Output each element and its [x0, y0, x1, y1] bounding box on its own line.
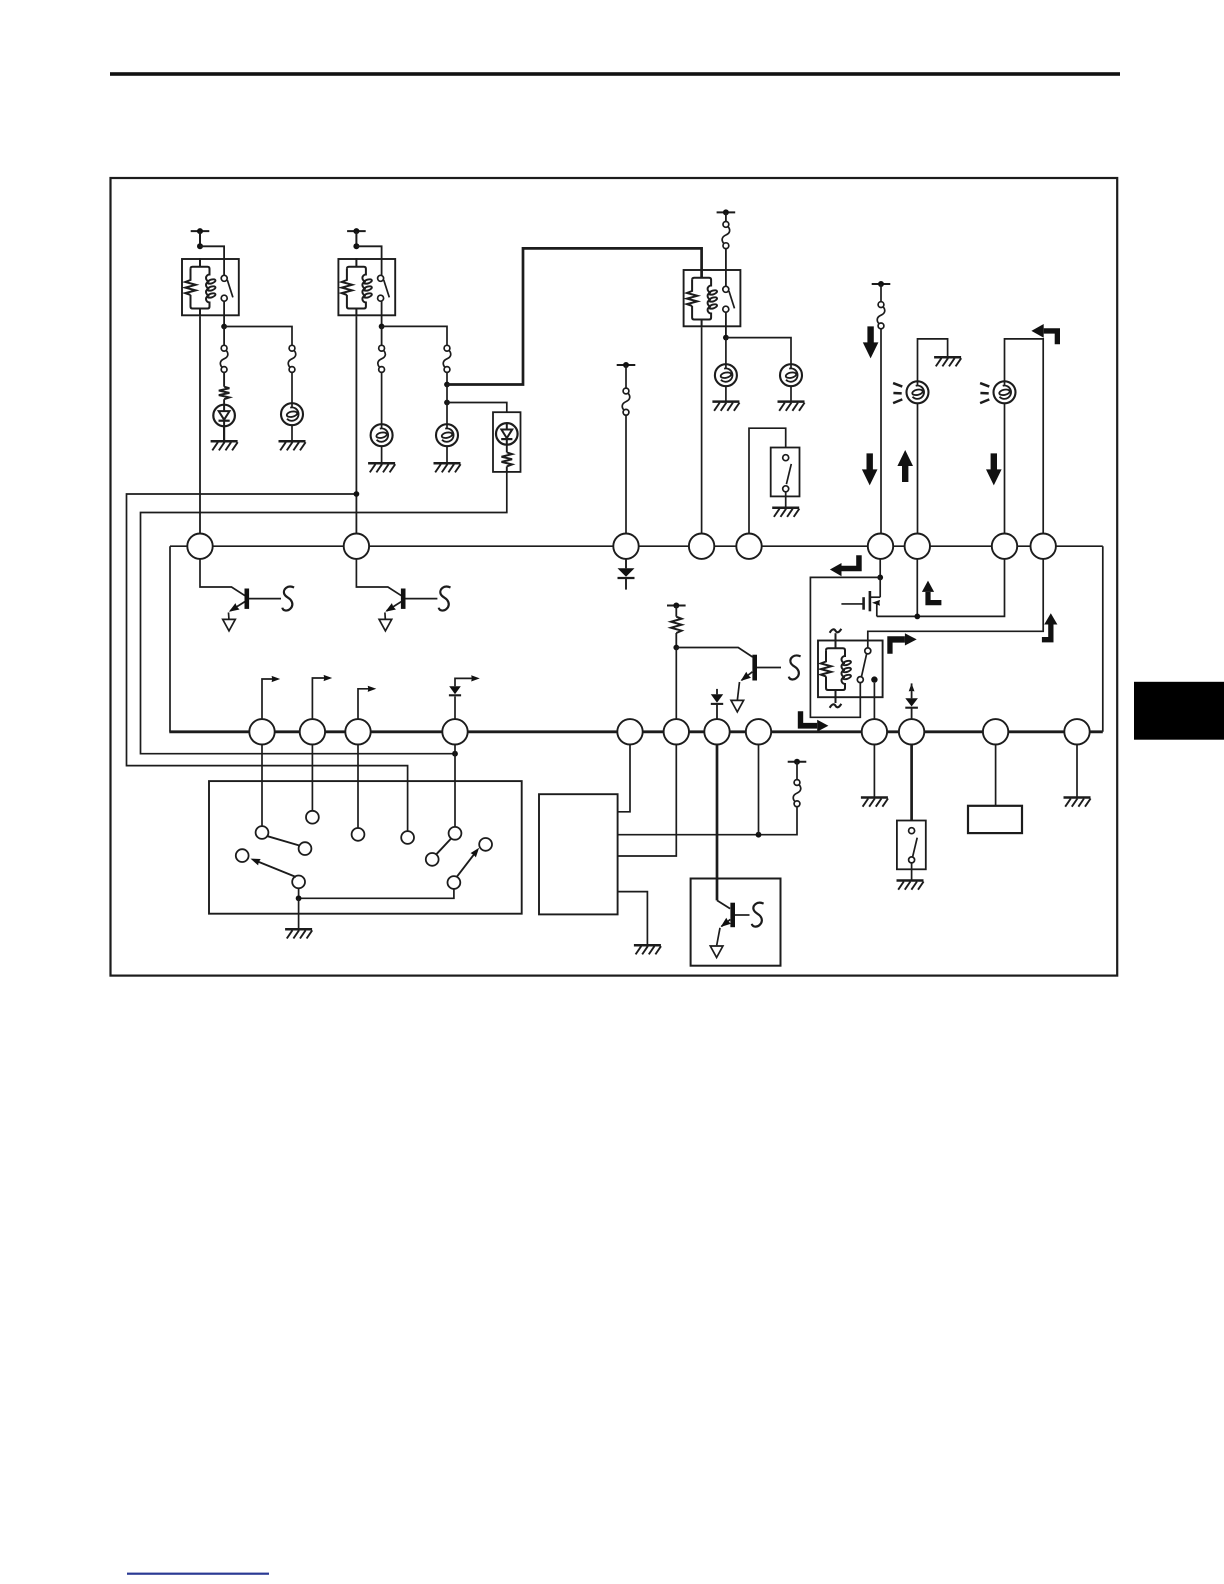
bold current arrow down A2 — [862, 453, 878, 485]
bold bent arrow pointing left top-right — [1044, 328, 1060, 344]
power stub node above fuse F7 — [872, 283, 891, 285]
wire P6 down to junction — [879, 559, 881, 578]
S1 contact c9 — [426, 853, 439, 866]
bold bent right arrow onto bus — [798, 711, 817, 728]
wire P18 to ground — [873, 745, 875, 798]
wire MOSFET source to pin P8 — [877, 559, 1005, 617]
wire U1 to fuse F8 line — [618, 807, 797, 834]
resistor R3 — [671, 617, 682, 633]
wire K4 coil out to break symbol — [835, 690, 837, 703]
wire F5 to relay K3 switch — [725, 249, 727, 287]
wire P10 to contact — [261, 745, 263, 827]
wire F7 down to pin row — [880, 329, 882, 534]
power stub node for relay K1 — [191, 230, 210, 232]
transistor unit box — [691, 879, 781, 966]
connector pin P13 — [442, 719, 467, 744]
LED indicator D2 — [496, 423, 518, 445]
ground below U1 — [634, 944, 661, 947]
connector pin P6 — [868, 534, 893, 559]
connector pin P4 — [689, 534, 714, 559]
connector pin P7 — [905, 534, 930, 559]
ground below S1 — [285, 928, 312, 931]
fuse F3 — [378, 351, 386, 368]
fuse F6 — [622, 393, 630, 410]
junction node on P13 wire — [452, 751, 458, 757]
connector pin P1 — [187, 534, 212, 559]
power stub node above fuse F5 — [717, 211, 736, 213]
bold current arrow down A4 — [986, 453, 1002, 485]
wire P14 to U1 — [618, 745, 630, 812]
ground for headlight L7 — [934, 356, 961, 359]
wire K1 junction to switch contact — [200, 246, 224, 275]
S1 contact c10 — [479, 838, 492, 851]
S2 bottom contact — [909, 857, 915, 863]
ground below L2 — [368, 462, 395, 465]
diagram outer border box — [111, 178, 1118, 976]
wire S1 common to ground — [298, 898, 300, 929]
position bulb L4 — [715, 364, 737, 386]
wire P11 to contact — [311, 745, 313, 811]
power stub node above fuse F6 — [617, 364, 636, 366]
signal arrow above P12 — [358, 689, 370, 720]
signal arrow above P10 — [262, 679, 274, 719]
wire K3 switch output to junction — [725, 312, 727, 337]
wire P3 to diode D3 — [625, 559, 627, 568]
wire base junction down to lower pin — [675, 648, 677, 720]
wire L7 down to pin row — [917, 403, 919, 534]
connector pin P3 — [613, 534, 638, 559]
bold wire P19 down to switch S2 — [910, 745, 913, 821]
connector pin P19 — [899, 719, 924, 744]
wire S2 to ground — [911, 863, 913, 881]
switch S2 box — [897, 821, 926, 870]
wire K3 coil output down to pin row — [701, 327, 703, 534]
junction node K1 branch — [197, 243, 203, 249]
bold current arrow down A1 — [863, 326, 879, 358]
wire K1 stub to junction — [199, 231, 201, 246]
wire branch to fuse F2 — [224, 327, 292, 346]
switch S3 box — [771, 448, 800, 497]
connector pin P18 — [862, 719, 887, 744]
bold bent up arrow right of K4 — [1042, 625, 1054, 643]
ground below L5 — [778, 400, 805, 403]
bold feed wire to relay K3 coil — [447, 248, 702, 384]
ground below L1 — [279, 440, 306, 443]
transistor Q4 (PNP) — [717, 900, 730, 908]
ground below D1 — [211, 440, 238, 443]
S1 contact c7 — [236, 849, 249, 862]
wire right bus link down — [1102, 546, 1104, 732]
ground below P18 — [861, 796, 888, 799]
relay K1 box with coil and switch — [182, 259, 239, 315]
connector pin P12 — [345, 719, 370, 744]
wire L4 to ground — [725, 386, 727, 401]
transistor Q1 (PNP driver) — [200, 559, 294, 631]
wire branch to LED unit box — [447, 403, 507, 413]
relay K2 box with coil and switch — [338, 259, 395, 315]
wire F3 to bulb L2 — [381, 372, 383, 424]
S3 blade — [786, 464, 791, 484]
fuse F2 — [288, 351, 296, 368]
wire D1 to ground — [223, 426, 225, 441]
wire K2 switch output to junction — [381, 301, 383, 326]
connector pin P15 — [664, 719, 689, 744]
wire P12 to contact — [357, 745, 359, 829]
fuse F7 — [877, 307, 885, 324]
connector pin P21 — [1064, 719, 1089, 744]
wire stub to fuse F6 — [625, 365, 627, 388]
S2 blade — [913, 838, 918, 857]
junction node below K2 switch — [379, 324, 385, 330]
wire stub to resistor R3 — [675, 606, 677, 617]
relay K3 box with coil and switch — [684, 270, 741, 326]
fuse F4 — [443, 351, 451, 368]
resistor R1 — [219, 387, 230, 400]
S1 bridge c9-c5 — [436, 839, 451, 855]
junction node feed to relay K3 — [444, 382, 450, 388]
connector pin P17 — [746, 719, 771, 744]
bold bent arrow pointing left at MOSFET — [842, 555, 862, 571]
connector pin P8 — [992, 534, 1017, 559]
wire F4 to junction — [446, 372, 448, 384]
wire K4 pole down to lower pin — [873, 683, 875, 720]
K4 pole node — [871, 676, 877, 682]
S1 contact c4 — [401, 831, 414, 844]
wire F2 to bulb L1 — [291, 372, 293, 403]
break symbol above K4 coil — [830, 629, 842, 633]
wire to bulb L4 — [725, 338, 727, 365]
wire to fuse F3 — [381, 326, 383, 345]
S1 contact c11 — [448, 876, 461, 889]
S3 top contact — [783, 455, 789, 461]
resistor R2 — [502, 452, 513, 466]
junction node MOSFET drain — [877, 575, 883, 581]
S1 common wire — [299, 888, 454, 898]
handlebar switch box S1 — [209, 781, 522, 914]
diode D6 and arrow above P19 — [909, 683, 915, 691]
light rays of L7 — [893, 383, 902, 387]
fuse F1 — [220, 351, 228, 368]
ground below L4 — [712, 400, 739, 403]
connector pin P16 — [704, 719, 729, 744]
K4 coil and resistor — [826, 648, 845, 690]
wire headlight L8 top link — [1005, 339, 1044, 534]
tail bulb L3 — [436, 424, 458, 446]
wire L5 to ground — [790, 386, 792, 401]
junction node below K3 switch — [723, 335, 729, 341]
connector pin P10 — [249, 719, 274, 744]
lower connector bus line — [169, 730, 1103, 733]
wire P21 to ground — [1076, 745, 1078, 798]
connector pin P5 — [736, 534, 761, 559]
wire to fuse F1 — [223, 327, 225, 346]
tail bulb L2 — [371, 424, 393, 446]
S1 contact c2 — [306, 811, 319, 824]
headlight bulb L8 lit — [994, 381, 1016, 403]
wire L3 to ground — [446, 446, 448, 463]
wire MOSFET drain to flasher relay contact — [810, 577, 880, 717]
diode D3 — [618, 568, 635, 577]
flasher relay K4 box — [818, 641, 883, 698]
wire left bus link down — [169, 546, 171, 732]
wire K1 switch output to junction — [223, 301, 225, 326]
S1 contact c3 — [352, 828, 365, 841]
meter bulb L1 — [281, 403, 303, 425]
wire K2 junction to switch contact — [356, 246, 381, 275]
wire L8 down to pin row — [1004, 403, 1006, 534]
connector pin P9 — [1031, 534, 1056, 559]
wire stub below D3 — [625, 579, 627, 590]
resistor unit box U2 — [968, 806, 1022, 833]
ground below S2 — [897, 879, 924, 882]
connector pin P2 — [344, 534, 369, 559]
wire P15 to U1 — [618, 745, 677, 857]
wire stub to fuse F8 — [796, 762, 798, 783]
diode D5 and arrow above P13 — [454, 697, 456, 720]
wire K2 stub to junction — [355, 231, 357, 246]
S1 contact c8 — [292, 876, 305, 889]
transistor Q2 (PNP driver) — [356, 559, 450, 631]
wire stub to fuse F5 — [725, 212, 727, 224]
junction node Q3 base — [673, 645, 679, 651]
connector pin P11 — [300, 719, 325, 744]
junction node on P17 wire — [756, 832, 762, 838]
wire P13 junction to contact — [454, 745, 456, 828]
S2 top contact — [909, 828, 915, 834]
wire L1 to ground — [291, 425, 293, 441]
wire branch to bulb L5 — [726, 338, 791, 365]
break symbol below K4 coil — [830, 704, 842, 708]
position bulb L5 — [780, 364, 802, 386]
light rays of L8 — [980, 383, 989, 387]
S1 wiper arrow c8 to c7 — [257, 861, 297, 877]
fuse F8 — [793, 785, 801, 802]
wire F1 to resistor R1 — [223, 372, 225, 386]
wire F6 down to pin row — [625, 415, 627, 534]
wire R2 to box bottom — [506, 466, 508, 472]
wire K2 coil output down to pin row — [355, 316, 357, 534]
wire K4 switch top to pin P9 — [868, 559, 1043, 648]
power stub node above fuse F8 — [788, 761, 807, 763]
wire P7 down to source node — [916, 559, 918, 617]
upper connector bus line — [170, 545, 1103, 547]
wire L2 to ground — [381, 446, 383, 463]
wire from LED unit to switch box pin — [141, 472, 507, 754]
K4 switch blade — [862, 654, 867, 677]
control unit box U1 — [539, 794, 618, 914]
junction node S1 common — [296, 895, 302, 901]
MOSFET Q5 symbol — [879, 577, 881, 597]
junction node K2 branch — [353, 243, 359, 249]
small diode D4 above lower pin — [716, 689, 718, 694]
wire R1 to LED D1 — [223, 399, 225, 405]
S1 contact c6 — [299, 842, 312, 855]
bold bent right arrow above bus — [887, 636, 905, 654]
wire D2 to resistor R2 — [506, 445, 508, 453]
connector pin P14 — [617, 719, 642, 744]
wire headlight L7 to ground loop — [918, 339, 948, 381]
K4 switch bottom contact — [857, 677, 863, 683]
bold bent up arrow near P7 — [925, 592, 941, 605]
junction node on source wire — [914, 614, 920, 620]
bold current arrow up A3 — [897, 450, 913, 482]
S3 bottom contact — [783, 486, 789, 492]
wire P20 to resistor unit U2 — [995, 745, 997, 806]
wire S3 to ground — [785, 492, 787, 508]
wire P17 down to junction — [758, 745, 760, 835]
S1 contact c1 — [256, 826, 269, 839]
bottom-left blue rule — [127, 1573, 269, 1575]
K4 switch top contact — [865, 648, 871, 654]
wire R3 to base junction — [675, 633, 677, 648]
wire branch to fuse F4 — [382, 326, 447, 345]
headlight bulb L7 lit — [907, 381, 929, 403]
wire stub to fuse F7 — [880, 284, 882, 302]
wire U1 to ground — [618, 892, 648, 946]
connector pin P20 — [983, 719, 1008, 744]
junction node below K1 switch — [221, 324, 227, 330]
transistor Q3 (NPN) — [676, 648, 752, 658]
power stub node above resistor R3 — [667, 605, 686, 607]
S1 contact c5 — [449, 827, 462, 840]
power stub node for relay K2 — [347, 230, 366, 232]
fuse F5 — [722, 227, 730, 244]
signal arrow above P11 — [312, 678, 326, 719]
wire pin P5 up to switch S3 — [749, 428, 786, 534]
ground below S3 — [772, 506, 799, 509]
page top rule — [110, 72, 1120, 76]
junction node branch to LED unit — [444, 400, 450, 406]
ground below L3 — [434, 462, 461, 465]
wire from K2 coil line to switch box contact — [127, 494, 408, 831]
LED unit box — [493, 412, 521, 472]
wire break to K4 coil — [835, 633, 837, 648]
junction node on K2 coil line — [354, 491, 360, 497]
bold wire P16 down to transistor Q4 — [716, 745, 719, 901]
ground below P21 — [1064, 796, 1091, 799]
wire K1 coil output to connector pin row — [199, 316, 201, 534]
right edge black section tab — [1134, 682, 1224, 740]
S1 wiper arrow c11 to c10 — [457, 853, 475, 877]
LED indicator D1 — [213, 405, 235, 427]
wire junction down to bulb L3 — [446, 385, 448, 425]
S1 bridge c1-c6 — [268, 836, 300, 845]
